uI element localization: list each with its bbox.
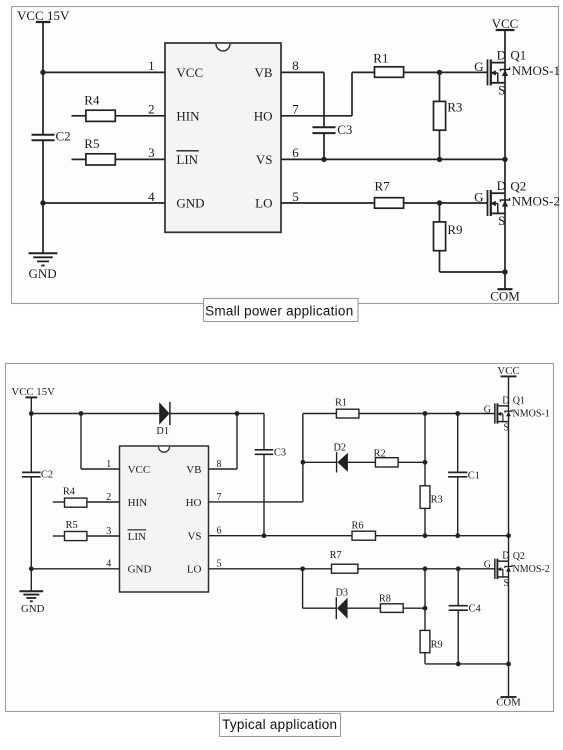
- svg-text:7: 7: [217, 492, 222, 503]
- svg-text:C2: C2: [56, 129, 71, 144]
- svg-text:Q1: Q1: [513, 396, 525, 407]
- svg-text:GND: GND: [21, 603, 45, 615]
- svg-text:R5: R5: [84, 136, 99, 151]
- svg-text:VCC: VCC: [176, 65, 203, 80]
- svg-text:HO: HO: [254, 108, 273, 123]
- svg-text:S: S: [504, 423, 510, 434]
- svg-text:3: 3: [106, 526, 111, 537]
- svg-text:C1: C1: [468, 470, 480, 481]
- svg-text:D1: D1: [156, 426, 169, 437]
- svg-text:LO: LO: [255, 196, 272, 211]
- svg-text:NMOS-1: NMOS-1: [512, 63, 560, 78]
- svg-text:GND: GND: [176, 196, 204, 211]
- svg-text:G: G: [484, 404, 491, 415]
- svg-text:D3: D3: [336, 587, 349, 598]
- svg-text:R3: R3: [447, 100, 462, 115]
- svg-text:R9: R9: [431, 639, 443, 650]
- svg-text:2: 2: [106, 492, 111, 503]
- svg-text:R6: R6: [352, 520, 364, 531]
- svg-text:Small power application: Small power application: [205, 303, 353, 318]
- svg-text:7: 7: [292, 102, 299, 117]
- svg-text:8: 8: [292, 58, 299, 73]
- svg-text:D: D: [502, 395, 509, 406]
- svg-text:D: D: [502, 551, 509, 562]
- svg-text:GND: GND: [128, 564, 152, 576]
- svg-text:G: G: [484, 560, 491, 571]
- svg-text:R3: R3: [431, 494, 443, 505]
- svg-text:6: 6: [292, 145, 299, 160]
- svg-text:5: 5: [217, 559, 222, 570]
- svg-text:G: G: [474, 190, 483, 205]
- svg-text:LIN: LIN: [176, 152, 198, 167]
- svg-text:VCC 15V: VCC 15V: [11, 386, 55, 398]
- svg-text:R1: R1: [373, 50, 388, 65]
- svg-text:D: D: [497, 48, 506, 63]
- svg-text:HIN: HIN: [176, 108, 200, 123]
- svg-text:R4: R4: [63, 487, 75, 498]
- svg-text:R8: R8: [379, 593, 391, 604]
- svg-text:VS: VS: [187, 531, 201, 543]
- svg-text:1: 1: [148, 58, 155, 73]
- svg-text:COM: COM: [490, 289, 520, 304]
- svg-text:C2: C2: [41, 470, 53, 481]
- svg-text:5: 5: [292, 189, 299, 204]
- svg-text:NMOS-2: NMOS-2: [512, 193, 560, 208]
- svg-text:VCC: VCC: [492, 16, 519, 31]
- svg-text:VCC: VCC: [497, 365, 519, 377]
- svg-text:R4: R4: [84, 93, 100, 108]
- svg-text:HIN: HIN: [128, 497, 148, 509]
- svg-text:VB: VB: [254, 65, 272, 80]
- svg-text:GND: GND: [29, 266, 57, 281]
- svg-text:C4: C4: [469, 604, 482, 615]
- svg-text:R1: R1: [335, 397, 347, 408]
- svg-text:NMOS-1: NMOS-1: [513, 409, 550, 420]
- svg-text:C3: C3: [274, 448, 286, 459]
- svg-text:VS: VS: [256, 152, 273, 167]
- svg-text:VCC: VCC: [128, 464, 151, 476]
- svg-text:8: 8: [217, 459, 222, 470]
- svg-text:R7: R7: [375, 179, 391, 194]
- svg-text:VCC 15V: VCC 15V: [17, 8, 70, 23]
- svg-text:R9: R9: [447, 222, 462, 237]
- svg-text:4: 4: [106, 559, 111, 570]
- svg-text:4: 4: [148, 189, 155, 204]
- svg-text:Typical application: Typical application: [222, 717, 337, 732]
- svg-text:NMOS-2: NMOS-2: [513, 564, 550, 575]
- svg-text:3: 3: [148, 145, 155, 160]
- svg-text:COM: COM: [496, 696, 521, 708]
- svg-text:LIN: LIN: [128, 531, 146, 543]
- svg-text:S: S: [498, 213, 505, 228]
- svg-text:S: S: [504, 578, 510, 589]
- svg-text:VB: VB: [186, 464, 201, 476]
- svg-text:G: G: [474, 59, 483, 74]
- svg-text:2: 2: [148, 102, 155, 117]
- svg-text:Q2: Q2: [513, 551, 525, 562]
- svg-text:6: 6: [217, 526, 222, 537]
- svg-text:R5: R5: [66, 520, 78, 531]
- svg-text:D2: D2: [334, 443, 347, 454]
- svg-text:HO: HO: [186, 497, 202, 509]
- svg-text:Q1: Q1: [510, 48, 526, 63]
- svg-text:S: S: [498, 82, 505, 97]
- svg-text:R7: R7: [330, 550, 342, 561]
- svg-text:C3: C3: [337, 122, 352, 137]
- svg-text:1: 1: [106, 459, 111, 470]
- svg-text:LO: LO: [187, 564, 202, 576]
- svg-text:D: D: [497, 178, 506, 193]
- svg-text:R2: R2: [374, 449, 386, 460]
- svg-text:Q2: Q2: [510, 178, 526, 193]
